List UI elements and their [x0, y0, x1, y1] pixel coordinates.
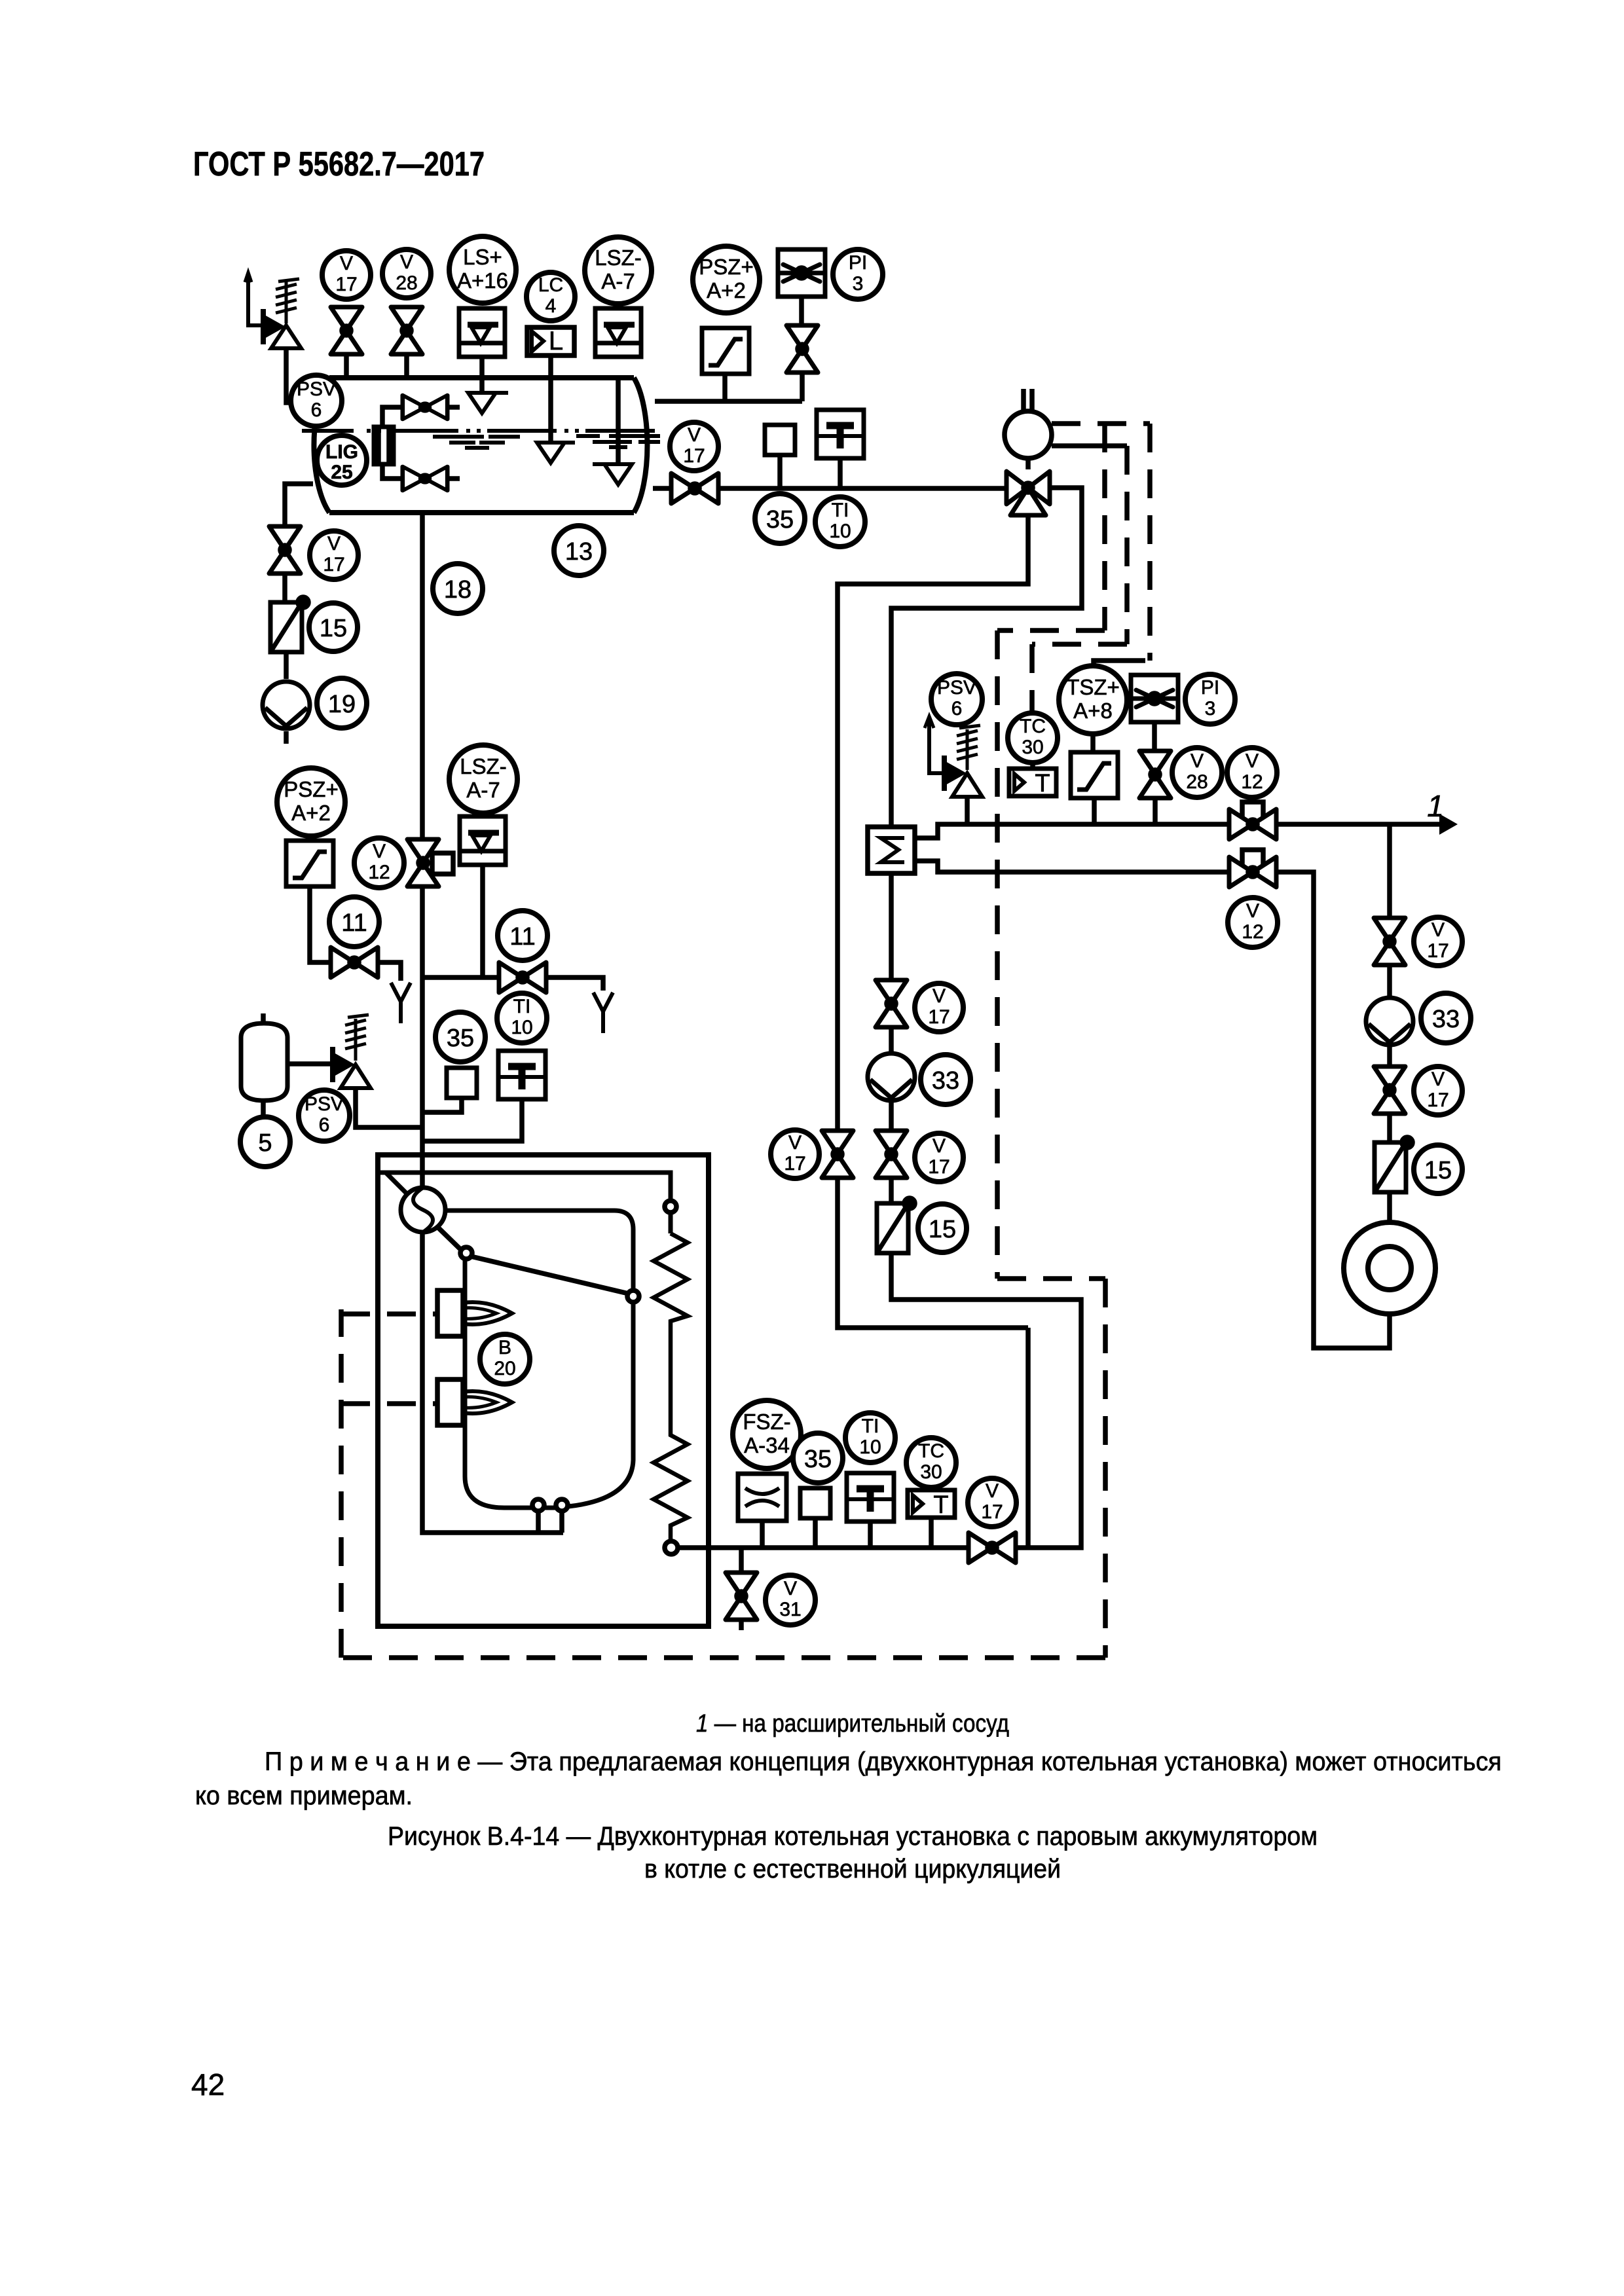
svg-text:A+2: A+2	[291, 801, 331, 825]
svg-text:30: 30	[920, 1461, 942, 1483]
svg-text:17: 17	[928, 1156, 950, 1178]
svg-text:31: 31	[779, 1599, 801, 1620]
svg-text:LC: LC	[538, 274, 563, 296]
svg-text:10: 10	[511, 1017, 532, 1038]
svg-text:17: 17	[1427, 1089, 1449, 1111]
svg-text:V: V	[373, 841, 386, 862]
svg-text:A+16: A+16	[457, 268, 508, 293]
svg-text:19: 19	[328, 691, 356, 718]
svg-text:V: V	[400, 251, 413, 273]
svg-text:17: 17	[335, 274, 357, 295]
svg-text:ГОСТ Р 55682.7—2017: ГОСТ Р 55682.7—2017	[193, 145, 485, 183]
svg-text:15: 15	[1424, 1157, 1452, 1184]
svg-text:13: 13	[565, 538, 593, 566]
svg-text:18: 18	[444, 576, 471, 604]
svg-text:12: 12	[1241, 771, 1263, 793]
svg-text:Рисунок В.4-14 — Двухконтурная: Рисунок В.4-14 — Двухконтурная котельная…	[388, 1822, 1318, 1851]
svg-text:A+8: A+8	[1073, 699, 1113, 723]
svg-text:T: T	[933, 1491, 948, 1519]
svg-text:1 — на расширительный сосуд: 1 — на расширительный сосуд	[696, 1710, 1009, 1738]
svg-text:V: V	[340, 253, 353, 274]
svg-text:4: 4	[545, 295, 557, 317]
svg-text:LSZ-: LSZ-	[595, 246, 642, 270]
svg-text:V: V	[986, 1480, 999, 1502]
svg-text:V: V	[784, 1578, 797, 1599]
svg-text:25: 25	[331, 462, 352, 483]
svg-text:V: V	[932, 985, 946, 1007]
svg-text:17: 17	[323, 554, 344, 575]
svg-text:42: 42	[191, 2068, 225, 2102]
svg-text:LIG: LIG	[325, 441, 358, 463]
svg-text:35: 35	[766, 506, 794, 534]
svg-text:B: B	[498, 1337, 511, 1358]
svg-text:PSZ+: PSZ+	[699, 255, 753, 279]
svg-text:1: 1	[1427, 789, 1444, 823]
svg-text:в котле с естественной циркуля: в котле с естественной циркуляцией	[644, 1855, 1061, 1884]
svg-text:33: 33	[1432, 1006, 1460, 1033]
svg-text:17: 17	[784, 1153, 805, 1175]
svg-text:TI: TI	[513, 996, 531, 1017]
svg-text:V: V	[1246, 750, 1259, 772]
svg-text:15: 15	[929, 1216, 956, 1243]
svg-text:A-34: A-34	[744, 1433, 790, 1457]
svg-text:6: 6	[951, 698, 963, 720]
svg-text:V: V	[1431, 1068, 1445, 1090]
svg-text:PSV: PSV	[297, 378, 336, 400]
svg-text:12: 12	[368, 862, 390, 883]
svg-text:A-7: A-7	[601, 269, 635, 293]
svg-text:11: 11	[341, 909, 367, 937]
svg-text:6: 6	[311, 399, 322, 421]
svg-text:A+2: A+2	[707, 278, 746, 302]
svg-text:ко всем примерам.: ко всем примерам.	[195, 1781, 413, 1810]
svg-text:17: 17	[683, 445, 705, 467]
svg-text:TI: TI	[862, 1415, 879, 1437]
svg-text:V: V	[1246, 900, 1259, 922]
svg-text:11: 11	[509, 923, 535, 951]
svg-text:V: V	[327, 533, 341, 555]
svg-text:17: 17	[1427, 940, 1449, 962]
svg-text:6: 6	[319, 1114, 330, 1136]
svg-text:T: T	[1035, 770, 1050, 797]
svg-text:28: 28	[396, 272, 417, 294]
svg-text:V: V	[788, 1132, 802, 1154]
svg-text:33: 33	[932, 1067, 959, 1095]
svg-text:10: 10	[859, 1436, 881, 1458]
svg-text:LS+: LS+	[463, 245, 502, 269]
svg-text:П р и м е ч а н и е — Эта пр: П р и м е ч а н и е — Эта предлагаемая к…	[265, 1747, 1502, 1776]
svg-text:V: V	[688, 424, 701, 446]
svg-text:35: 35	[804, 1446, 832, 1473]
svg-text:PSV: PSV	[937, 677, 976, 699]
svg-text:12: 12	[1242, 921, 1263, 943]
svg-text:10: 10	[829, 520, 851, 542]
svg-text:30: 30	[1022, 737, 1043, 758]
svg-text:17: 17	[928, 1006, 950, 1028]
svg-text:V: V	[932, 1135, 946, 1157]
svg-text:3: 3	[853, 273, 864, 295]
svg-text:L: L	[549, 327, 563, 355]
svg-text:A-7: A-7	[466, 778, 500, 802]
svg-text:V: V	[1190, 750, 1204, 772]
svg-text:TC: TC	[918, 1440, 944, 1462]
svg-text:TI: TI	[832, 500, 849, 521]
svg-text:V: V	[1431, 919, 1445, 941]
svg-text:PI: PI	[849, 252, 867, 274]
svg-text:PSV: PSV	[304, 1093, 344, 1115]
svg-text:15: 15	[320, 615, 347, 642]
svg-text:35: 35	[447, 1025, 474, 1052]
svg-text:17: 17	[981, 1501, 1003, 1523]
svg-text:PSZ+: PSZ+	[284, 777, 338, 801]
svg-text:5: 5	[258, 1129, 272, 1157]
svg-text:FSZ-: FSZ-	[743, 1410, 790, 1434]
svg-text:LSZ-: LSZ-	[460, 754, 507, 778]
svg-text:20: 20	[494, 1358, 515, 1379]
svg-text:3: 3	[1205, 698, 1216, 720]
svg-text:TSZ+: TSZ+	[1066, 675, 1120, 699]
svg-text:28: 28	[1186, 771, 1208, 793]
svg-text:TC: TC	[1020, 716, 1046, 737]
svg-text:PI: PI	[1201, 677, 1219, 699]
